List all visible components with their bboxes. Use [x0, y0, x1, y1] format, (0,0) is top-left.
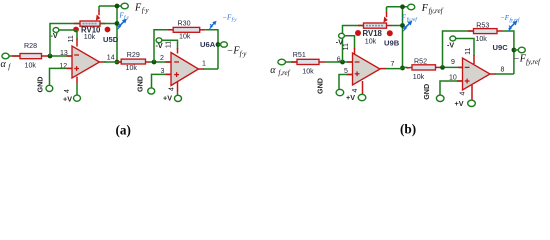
svg-text:GND: GND — [422, 84, 431, 100]
svg-text:R28: R28 — [24, 42, 37, 50]
voltage probe -F_fy — [209, 21, 216, 29]
node junction stage2b input — [440, 65, 445, 70]
ground terminal 2 — [148, 88, 155, 94]
+V label 2 — [163, 94, 172, 103]
terminal F_fy,ref top — [408, 4, 415, 10]
potentiometer RV18 — [358, 23, 392, 28]
-V label — [51, 31, 58, 40]
resistor R30 — [168, 27, 206, 32]
svg-text:13: 13 — [60, 50, 68, 57]
voltage probe F_fy,ref — [403, 21, 412, 32]
pin number 13 — [60, 50, 68, 57]
wire input to R28 — [9, 55, 20, 57]
svg-text:(a): (a) — [116, 123, 131, 138]
wire feedback vertical to output — [100, 6, 117, 62]
potentiometer RV10 — [74, 21, 106, 26]
voltage probe -F_fy,ref — [508, 21, 517, 32]
svg-text:f·y: f·y — [232, 18, 238, 23]
-V terminal op-amp1b — [339, 33, 355, 55]
svg-text:4: 4 — [352, 88, 359, 92]
svg-text:R52: R52 — [414, 58, 427, 66]
GND label 2b — [422, 84, 431, 100]
pin 4 and +V terminal 2b — [468, 85, 476, 107]
wire top rail to output terminal b — [387, 7, 408, 10]
label F_fy — [134, 2, 149, 14]
GND label 1 — [36, 77, 45, 93]
svg-text:U5D: U5D — [103, 35, 119, 44]
wire R52 to pin 9 — [443, 66, 464, 68]
probe label F_fy,ref blue — [401, 13, 418, 23]
GND label 2 — [135, 76, 144, 92]
terminal -F_fy,ref — [518, 47, 525, 53]
node junction at inverting input — [48, 54, 53, 59]
wire pin10 to GND b2 — [440, 81, 463, 95]
pin number 2 — [160, 55, 164, 62]
wire feedback R30 — [154, 30, 173, 62]
wire feedback R53 — [443, 31, 474, 67]
label -F_fy,ref — [513, 54, 541, 67]
GND label 1b — [316, 78, 325, 94]
svg-text:−F: −F — [500, 14, 510, 22]
svg-text:F: F — [421, 3, 429, 14]
svg-text:10k: 10k — [413, 73, 425, 81]
svg-text:+V: +V — [163, 94, 172, 103]
wire R30 to output corner — [205, 30, 218, 69]
resistor R53 — [468, 29, 503, 34]
ground terminal 1 — [46, 85, 53, 91]
pin number 4 op-amp2b — [459, 91, 466, 95]
resistor R51 — [291, 59, 325, 64]
svg-text:11: 11 — [465, 47, 472, 54]
svg-text:10k: 10k — [126, 64, 138, 72]
pin number 1 and output wire — [199, 60, 219, 69]
svg-text:α: α — [270, 65, 276, 76]
-V terminal op-amp2b — [450, 36, 474, 64]
op-amp U5D — [72, 46, 100, 78]
svg-text:7: 7 — [391, 61, 395, 68]
terminal -F_fy — [221, 42, 228, 47]
pin number 3 — [161, 68, 165, 75]
pin number 10 — [449, 74, 457, 81]
op-amp U9B — [353, 53, 381, 85]
svg-text:10k: 10k — [179, 33, 191, 41]
caption (b) — [400, 122, 416, 137]
svg-text:U9B: U9B — [384, 39, 400, 48]
-V label 1b — [336, 38, 343, 47]
op-amp U9C — [463, 58, 491, 90]
svg-text:−F: −F — [513, 54, 527, 65]
wire feedback up to RV18 left — [343, 26, 364, 63]
svg-text:R51: R51 — [293, 51, 306, 59]
node dot output terminal branch — [216, 42, 221, 47]
svg-text:fy,ref: fy,ref — [429, 7, 444, 15]
svg-text:(b): (b) — [400, 122, 416, 137]
node dot output terminal branch b — [512, 48, 519, 53]
svg-text:10k: 10k — [302, 68, 314, 76]
label alpha_f — [1, 59, 12, 71]
probe label -F_fy,ref blue — [500, 14, 520, 24]
wire pin3 to GND — [152, 74, 172, 87]
-V label 2b — [447, 40, 454, 49]
svg-text:14: 14 — [107, 54, 115, 61]
svg-text:−F: −F — [222, 13, 232, 21]
voltage probe F_fy — [118, 19, 127, 30]
label -F_fy — [227, 46, 248, 58]
svg-text:-V: -V — [336, 38, 343, 47]
pin 4 and +V terminal 1b — [358, 81, 366, 101]
wire feedback vertical b — [392, 7, 403, 69]
probe label -F_fy blue — [222, 13, 237, 23]
pin number 4 op-amp1b — [352, 88, 359, 92]
R53 value label — [475, 21, 489, 43]
caption (a) — [116, 123, 131, 138]
wire R28 to pin 13 — [49, 55, 72, 57]
wire feedback up to RV10 left — [50, 24, 80, 57]
svg-text:GND: GND — [316, 78, 325, 94]
ground terminal 1b — [336, 89, 344, 95]
svg-text:10k: 10k — [25, 62, 37, 70]
node junction stage1b input — [340, 60, 345, 65]
svg-text:α: α — [1, 59, 7, 70]
svg-text:11: 11 — [343, 43, 350, 50]
svg-text:R53: R53 — [476, 21, 489, 29]
svg-text:GND: GND — [135, 76, 144, 92]
pin number 6 — [337, 56, 341, 63]
svg-text:11: 11 — [68, 35, 75, 42]
svg-text:-V: -V — [156, 41, 163, 50]
pin number 4 op-amp2 — [168, 87, 175, 91]
-V terminal op-amp1 — [53, 28, 77, 47]
pin number 14 and output wire — [100, 54, 124, 62]
label alpha_f,ref — [270, 65, 290, 77]
R52 value label — [413, 58, 427, 82]
node dots on feedback line b — [400, 4, 405, 70]
U6A label — [200, 40, 216, 49]
input terminal alpha_f — [2, 53, 9, 59]
wire R51 to pin 6 — [325, 61, 353, 63]
svg-text:2: 2 — [160, 55, 164, 62]
pin number 4 — [64, 89, 71, 93]
svg-text:−F: −F — [227, 46, 241, 57]
pin number 9 — [451, 59, 455, 66]
pin number 8 and output wire b — [490, 66, 514, 74]
wire top rail to output terminal — [99, 5, 121, 7]
R29 value label — [126, 51, 140, 72]
svg-text:U6A: U6A — [200, 40, 216, 49]
-V label 2 — [156, 41, 163, 50]
pin 4 and +V terminal 2 — [175, 82, 182, 102]
op-amp U6A — [171, 53, 199, 86]
svg-text:+V: +V — [63, 95, 72, 104]
RV10 wiper arrow — [96, 6, 100, 21]
resistor R52 — [407, 65, 443, 70]
svg-text:f·y: f·y — [124, 16, 130, 21]
svg-text:F: F — [134, 2, 142, 13]
svg-text:6: 6 — [337, 56, 341, 63]
svg-text:fy,ref: fy,ref — [526, 58, 541, 66]
svg-text:4: 4 — [459, 91, 466, 95]
U5D label — [103, 35, 119, 44]
svg-text:10k: 10k — [475, 35, 487, 43]
wire R53 to output corner b — [503, 31, 514, 74]
svg-text:U9C: U9C — [493, 43, 509, 52]
pin number 12 — [59, 63, 67, 70]
svg-text:-V: -V — [447, 40, 454, 49]
R30 value label — [178, 20, 191, 41]
RV18 adjust dots and label — [355, 29, 393, 45]
svg-text:fy,ref: fy,ref — [407, 18, 418, 23]
svg-text:R30: R30 — [178, 20, 191, 28]
pin number 11 — [68, 35, 75, 42]
RV18 wiper arrow — [383, 8, 387, 23]
+V label 2b — [455, 99, 464, 108]
svg-text:8: 8 — [501, 66, 505, 73]
resistor R28 — [12, 54, 49, 59]
wire R29 to pin 2 — [150, 61, 171, 63]
U9B label — [384, 39, 400, 48]
R51 value label — [293, 51, 314, 76]
U9C label — [493, 43, 509, 52]
svg-text:1: 1 — [202, 60, 206, 67]
svg-text:GND: GND — [36, 77, 45, 93]
pin number 5 — [344, 68, 348, 75]
node dots on feedback line — [115, 4, 120, 65]
svg-text:f·y: f·y — [142, 6, 150, 14]
label F_fy,ref — [421, 3, 444, 15]
wire input to R51 — [286, 61, 298, 63]
svg-text:-V: -V — [51, 31, 58, 40]
pin number 11 op-amp2 — [165, 41, 172, 48]
svg-text:fy,ref: fy,ref — [510, 19, 521, 24]
svg-text:+V: +V — [455, 99, 464, 108]
input terminal alpha_f,ref — [278, 59, 286, 65]
svg-text:10k: 10k — [365, 37, 377, 45]
resistor R29 — [118, 59, 150, 64]
RV10 adjust dots and label — [73, 26, 110, 41]
wire pin5 to GND b — [339, 75, 353, 90]
svg-text:11: 11 — [165, 41, 172, 48]
svg-text:+V: +V — [346, 93, 355, 102]
pin number 7 and output wire b — [380, 61, 408, 69]
pin number 11 op-amp2b — [465, 47, 472, 54]
probe label F_fy blue — [119, 12, 130, 22]
pin 4 and +V terminal 1 — [74, 77, 81, 102]
wire pin12 to GND — [50, 68, 73, 85]
pin number 11 op-amp1b — [343, 43, 350, 50]
ground terminal 2b — [436, 95, 444, 101]
svg-text:9: 9 — [451, 59, 455, 66]
svg-text:4: 4 — [168, 87, 175, 91]
node junction stage2 input — [152, 60, 157, 65]
-V terminal op-amp2 — [156, 38, 177, 54]
svg-text:f·y: f·y — [240, 50, 248, 58]
svg-text:4: 4 — [64, 89, 71, 93]
svg-text:R29: R29 — [127, 51, 140, 59]
+V label 1 — [63, 95, 72, 104]
R28 value label — [24, 42, 37, 69]
terminal F_fy top — [121, 3, 128, 9]
+V label 1b — [346, 93, 355, 102]
svg-text:10k: 10k — [84, 33, 96, 41]
svg-text:f,ref: f,ref — [278, 69, 290, 77]
